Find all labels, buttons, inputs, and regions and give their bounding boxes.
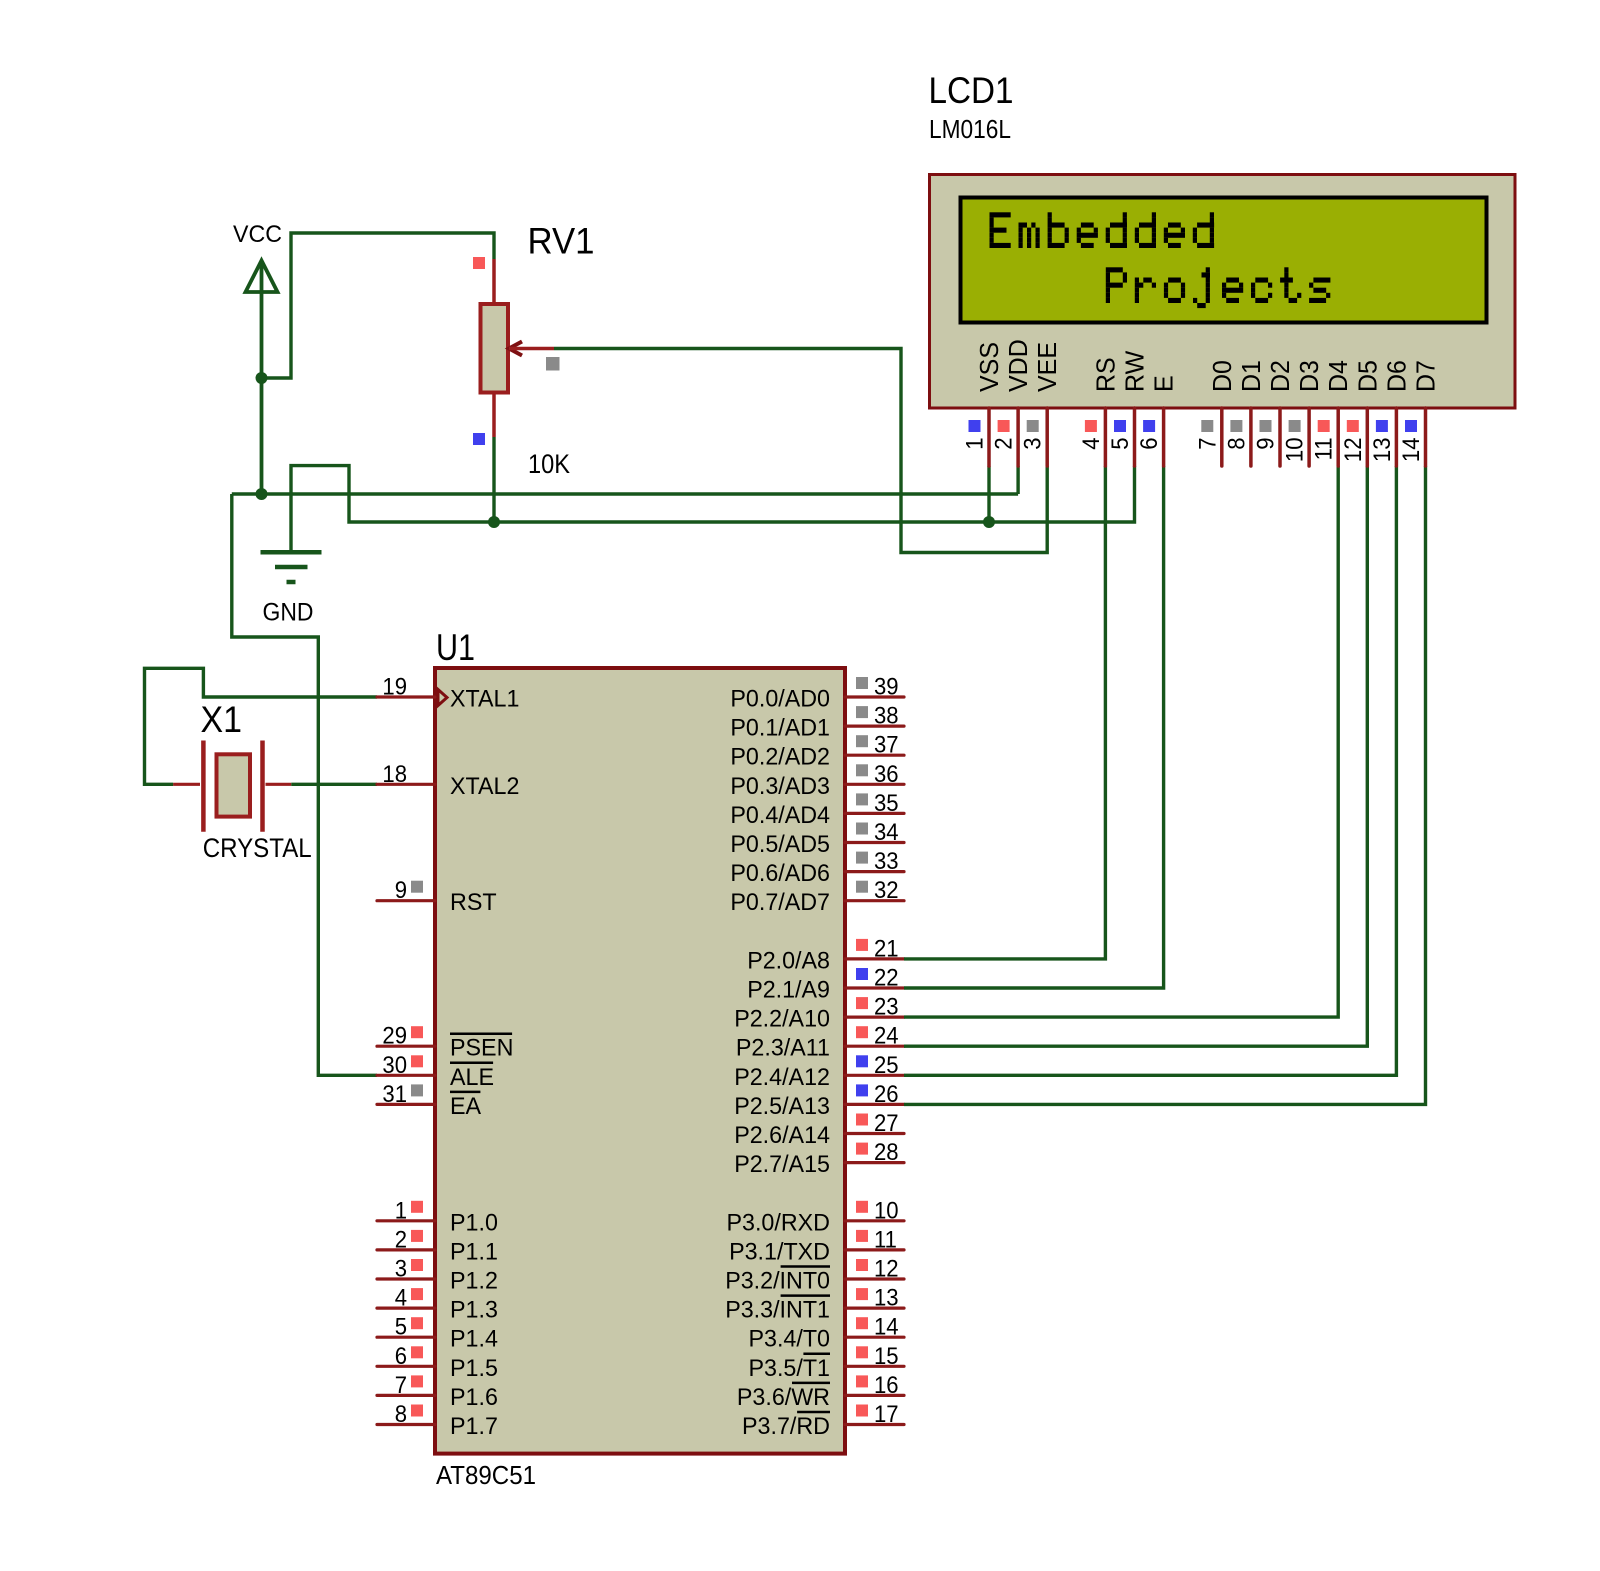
svg-text:5: 5: [1107, 438, 1134, 450]
LCD pin 12 D5: [1340, 360, 1383, 466]
wire LCD VSS stub: [987, 466, 990, 522]
wire U1 P2 to LCD D7: [904, 466, 1426, 1104]
svg-text:11: 11: [1311, 438, 1338, 461]
svg-text:11: 11: [874, 1226, 897, 1253]
U1 pin 27 P2.6/A14: [734, 1110, 904, 1149]
wire U1 P2 to LCD E: [904, 466, 1164, 988]
svg-text:14: 14: [1398, 438, 1425, 463]
svg-text:15: 15: [874, 1343, 899, 1370]
svg-text:31: 31: [382, 1081, 407, 1108]
wire X1 right to U1 XTAL2: [291, 783, 377, 786]
svg-text:P3.6/WR: P3.6/WR: [737, 1384, 830, 1411]
svg-text:P3.0/RXD: P3.0/RXD: [727, 1209, 831, 1236]
LCD pin 8 D1: [1223, 360, 1266, 466]
LCD pin 3 VEE: [1020, 342, 1063, 466]
svg-text:P1.3: P1.3: [450, 1297, 498, 1324]
svg-text:XTAL2: XTAL2: [450, 773, 519, 800]
svg-text:VCC: VCC: [233, 221, 282, 248]
LCD pin 1 VSS: [962, 342, 1005, 466]
svg-text:28: 28: [874, 1139, 899, 1166]
svg-text:P0.7/AD7: P0.7/AD7: [730, 889, 830, 916]
svg-text:10K: 10K: [528, 449, 570, 479]
svg-text:8: 8: [395, 1401, 407, 1428]
U1 pin 36 P0.3/AD3: [730, 761, 904, 800]
wire RV1 pin 2 to GND: [492, 437, 495, 522]
LCD pin 4 RS: [1078, 357, 1121, 466]
svg-text:AT89C51: AT89C51: [436, 1460, 536, 1490]
svg-text:38: 38: [874, 703, 899, 730]
LCD pin 5 RW: [1107, 351, 1150, 466]
svg-text:D4: D4: [1325, 360, 1353, 392]
svg-text:35: 35: [874, 790, 899, 817]
wire U1 P2 to LCD D5: [904, 466, 1367, 1046]
U1 pin 3 P1.2: [377, 1256, 498, 1295]
U1 pin 24 P2.3/A11: [736, 1023, 904, 1062]
junction LCD VSS / GND rail: [983, 516, 995, 528]
U1 pin 34 P0.5/AD5: [730, 819, 904, 858]
svg-text:P2.1/A9: P2.1/A9: [747, 977, 830, 1004]
U1 pin 15 P3.5/T1: [749, 1343, 905, 1382]
LCD display text line 2 "ProJects": [1106, 267, 1331, 308]
svg-text:13: 13: [1369, 438, 1396, 463]
U1 pin 32 P0.7/AD7: [730, 877, 904, 916]
svg-text:P3.3/INT1: P3.3/INT1: [725, 1297, 830, 1324]
svg-text:P3.1/TXD: P3.1/TXD: [729, 1238, 830, 1265]
power symbol VCC: [233, 221, 282, 494]
svg-text:D6: D6: [1383, 360, 1411, 392]
svg-text:X1: X1: [201, 699, 243, 740]
svg-text:P1.2: P1.2: [450, 1268, 498, 1295]
wire RV1 wiper to LCD VEE: [554, 349, 1047, 553]
svg-text:30: 30: [382, 1052, 407, 1079]
svg-text:12: 12: [874, 1256, 899, 1283]
U1 pin 17 P3.7/RD: [742, 1401, 904, 1440]
svg-text:2: 2: [395, 1226, 407, 1253]
svg-text:PSEN: PSEN: [450, 1035, 513, 1062]
U1 pin 28 P2.7/A15: [734, 1139, 904, 1178]
svg-text:9: 9: [395, 877, 407, 904]
svg-text:23: 23: [874, 994, 899, 1021]
svg-text:P2.7/A15: P2.7/A15: [734, 1151, 830, 1178]
svg-text:ALE: ALE: [450, 1064, 494, 1091]
svg-text:1: 1: [395, 1197, 407, 1224]
LCD pin 10 D3: [1282, 360, 1325, 466]
svg-text:7: 7: [395, 1372, 407, 1399]
wire VCC to U1 ALE pin 30: [232, 494, 377, 1075]
svg-text:P3.7/RD: P3.7/RD: [742, 1413, 830, 1440]
svg-text:RST: RST: [450, 889, 497, 916]
svg-text:39: 39: [874, 674, 899, 701]
IC U1 AT89C51 body: [435, 627, 845, 1490]
wire LCD VDD stub: [1016, 466, 1019, 494]
U1 pin 14 P3.4/T0: [749, 1314, 905, 1353]
svg-text:6: 6: [1136, 438, 1163, 450]
U1 pin 39 P0.0/AD0: [730, 674, 904, 713]
svg-text:22: 22: [874, 965, 899, 992]
potentiometer RV1: [473, 221, 595, 480]
svg-text:U1: U1: [436, 627, 475, 668]
svg-text:E: E: [1151, 375, 1179, 392]
svg-text:18: 18: [382, 761, 407, 788]
U1 pin 38 P0.1/AD1: [730, 703, 904, 742]
svg-text:7: 7: [1194, 438, 1221, 450]
svg-text:10: 10: [874, 1197, 899, 1224]
svg-text:D0: D0: [1209, 360, 1237, 392]
svg-text:XTAL1: XTAL1: [450, 686, 519, 713]
LCD pin 7 D0: [1194, 360, 1237, 466]
junction RV1 pin 2 / GND rail: [488, 516, 500, 528]
svg-text:RW: RW: [1122, 351, 1150, 392]
LCD pin 11 D4: [1311, 360, 1354, 466]
svg-text:4: 4: [1078, 438, 1105, 450]
LCD display text line 1 "Embedded": [990, 212, 1215, 248]
svg-text:D1: D1: [1238, 360, 1266, 392]
U1 pin 23 P2.2/A10: [734, 994, 904, 1033]
crystal X1: [173, 699, 312, 863]
svg-text:P0.0/AD0: P0.0/AD0: [730, 686, 830, 713]
svg-text:VDD: VDD: [1005, 339, 1033, 392]
U1 pin 26 P2.5/A13: [734, 1081, 904, 1120]
U1 pin 6 P1.5: [377, 1343, 498, 1382]
U1 pin 10 P3.0/RXD: [727, 1197, 905, 1236]
svg-text:19: 19: [382, 674, 407, 701]
svg-text:EA: EA: [450, 1093, 481, 1120]
LCD LCD1 reference labels: [929, 70, 1014, 144]
svg-text:P1.7: P1.7: [450, 1413, 498, 1440]
svg-text:P2.0/A8: P2.0/A8: [747, 947, 830, 974]
svg-text:8: 8: [1223, 438, 1250, 450]
U1 pin 1 P1.0: [377, 1197, 498, 1236]
svg-text:10: 10: [1282, 438, 1309, 463]
U1 pin 31 EA: [377, 1081, 481, 1120]
U1 pin 33 P0.6/AD6: [730, 848, 904, 887]
svg-text:D5: D5: [1354, 360, 1382, 392]
svg-text:26: 26: [874, 1081, 899, 1108]
svg-text:4: 4: [395, 1285, 407, 1312]
svg-text:VSS: VSS: [976, 342, 1004, 392]
svg-text:P1.5: P1.5: [450, 1355, 498, 1382]
svg-text:16: 16: [874, 1372, 899, 1399]
svg-text:32: 32: [874, 877, 899, 904]
svg-text:P0.2/AD2: P0.2/AD2: [730, 744, 830, 771]
U1 pin 11 P3.1/TXD: [729, 1226, 904, 1265]
svg-text:5: 5: [395, 1314, 407, 1341]
svg-text:25: 25: [874, 1052, 899, 1079]
U1 pin 16 P3.6/WR: [737, 1372, 904, 1411]
svg-text:2: 2: [991, 438, 1018, 450]
svg-text:GND: GND: [263, 599, 314, 627]
U1 pin 8 P1.7: [377, 1401, 498, 1440]
wire U1 P2 to LCD D6: [904, 466, 1396, 1075]
svg-text:P0.4/AD4: P0.4/AD4: [730, 802, 830, 829]
svg-text:33: 33: [874, 848, 899, 875]
svg-text:P2.6/A14: P2.6/A14: [734, 1122, 830, 1149]
svg-text:RS: RS: [1092, 357, 1120, 392]
U1 pin 21 P2.0/A8: [747, 935, 904, 974]
svg-text:3: 3: [1020, 438, 1047, 450]
svg-text:12: 12: [1340, 438, 1367, 463]
svg-text:D3: D3: [1296, 360, 1324, 392]
junction VCC arrow / horizontal net: [256, 488, 268, 500]
svg-text:P3.2/INT0: P3.2/INT0: [725, 1268, 830, 1295]
LCD pin 2 VDD: [991, 339, 1034, 466]
U1 pin 4 P1.3: [377, 1285, 498, 1324]
svg-text:LCD1: LCD1: [929, 70, 1014, 111]
svg-text:17: 17: [874, 1401, 899, 1428]
svg-text:LM016L: LM016L: [929, 114, 1011, 144]
LCD pin 9 D2: [1253, 360, 1296, 466]
junction VCC arrow / RV1 branch: [256, 372, 268, 384]
svg-text:P1.0: P1.0: [450, 1209, 498, 1236]
svg-text:VEE: VEE: [1034, 342, 1062, 392]
svg-text:9: 9: [1253, 438, 1280, 450]
svg-text:1: 1: [962, 438, 989, 450]
wire VCC to LCD VDD: [232, 492, 1018, 495]
U1 pin 25 P2.4/A12: [734, 1052, 904, 1091]
svg-text:3: 3: [395, 1256, 407, 1283]
U1 pin 35 P0.4/AD4: [730, 790, 904, 829]
LCD LCD1 body: [930, 175, 1516, 409]
U1 pin 7 P1.6: [377, 1372, 498, 1411]
U1 pin 18 XTAL2: [377, 761, 519, 800]
svg-text:P2.5/A13: P2.5/A13: [734, 1093, 830, 1120]
svg-text:6: 6: [395, 1343, 407, 1370]
U1 pin 5 P1.4: [377, 1314, 498, 1353]
U1 XTAL1 clock input triangle: [438, 690, 447, 706]
svg-text:P2.2/A10: P2.2/A10: [734, 1006, 830, 1033]
svg-text:P0.1/AD1: P0.1/AD1: [730, 715, 830, 742]
svg-text:29: 29: [382, 1023, 407, 1050]
svg-text:21: 21: [874, 935, 899, 962]
svg-text:D2: D2: [1267, 360, 1295, 392]
svg-text:P0.6/AD6: P0.6/AD6: [730, 860, 830, 887]
U1 pin 9 RST: [377, 877, 497, 916]
svg-text:36: 36: [874, 761, 899, 788]
U1 pin 29 PSEN: [377, 1023, 513, 1062]
U1 pin 2 P1.1: [377, 1226, 498, 1265]
svg-text:D7: D7: [1413, 360, 1441, 392]
svg-text:P1.4: P1.4: [450, 1326, 498, 1353]
svg-text:P2.4/A12: P2.4/A12: [734, 1064, 830, 1091]
LCD screen: [961, 198, 1487, 323]
U1 pin 13 P3.3/INT1: [725, 1285, 904, 1324]
wire GND to RV1 / LCD VSS / LCD RW: [291, 466, 1135, 552]
U1 pin 12 P3.2/INT0: [725, 1256, 904, 1295]
svg-text:CRYSTAL: CRYSTAL: [203, 833, 312, 863]
svg-text:P0.5/AD5: P0.5/AD5: [730, 831, 830, 858]
LCD pin 6 E: [1136, 375, 1179, 466]
svg-text:P1.6: P1.6: [450, 1384, 498, 1411]
U1 pin 30 ALE: [377, 1052, 494, 1091]
svg-text:14: 14: [874, 1314, 899, 1341]
svg-text:P0.3/AD3: P0.3/AD3: [730, 773, 830, 800]
svg-text:34: 34: [874, 819, 899, 846]
svg-text:P3.5/T1: P3.5/T1: [749, 1355, 831, 1382]
svg-text:P2.3/A11: P2.3/A11: [736, 1035, 830, 1062]
U1 pin 19 XTAL1: [377, 674, 519, 713]
LCD pin 13 D6: [1369, 360, 1412, 466]
svg-text:P3.4/T0: P3.4/T0: [749, 1326, 831, 1353]
svg-text:P1.1: P1.1: [450, 1238, 498, 1265]
U1 pin 37 P0.2/AD2: [730, 732, 904, 771]
wire U1 P2 to LCD RS: [904, 466, 1105, 959]
wire X1 left to U1 XTAL1: [145, 668, 378, 784]
svg-text:27: 27: [874, 1110, 899, 1137]
svg-text:24: 24: [874, 1023, 899, 1050]
svg-text:13: 13: [874, 1285, 899, 1312]
svg-text:37: 37: [874, 732, 899, 759]
U1 pin 22 P2.1/A9: [747, 965, 904, 1004]
wire VCC to RV1 pin 1: [261, 233, 494, 378]
wire U1 P2 to LCD D4: [904, 466, 1338, 1017]
ground: [261, 552, 322, 626]
svg-text:RV1: RV1: [528, 221, 595, 262]
LCD pin 14 D7: [1398, 360, 1441, 466]
